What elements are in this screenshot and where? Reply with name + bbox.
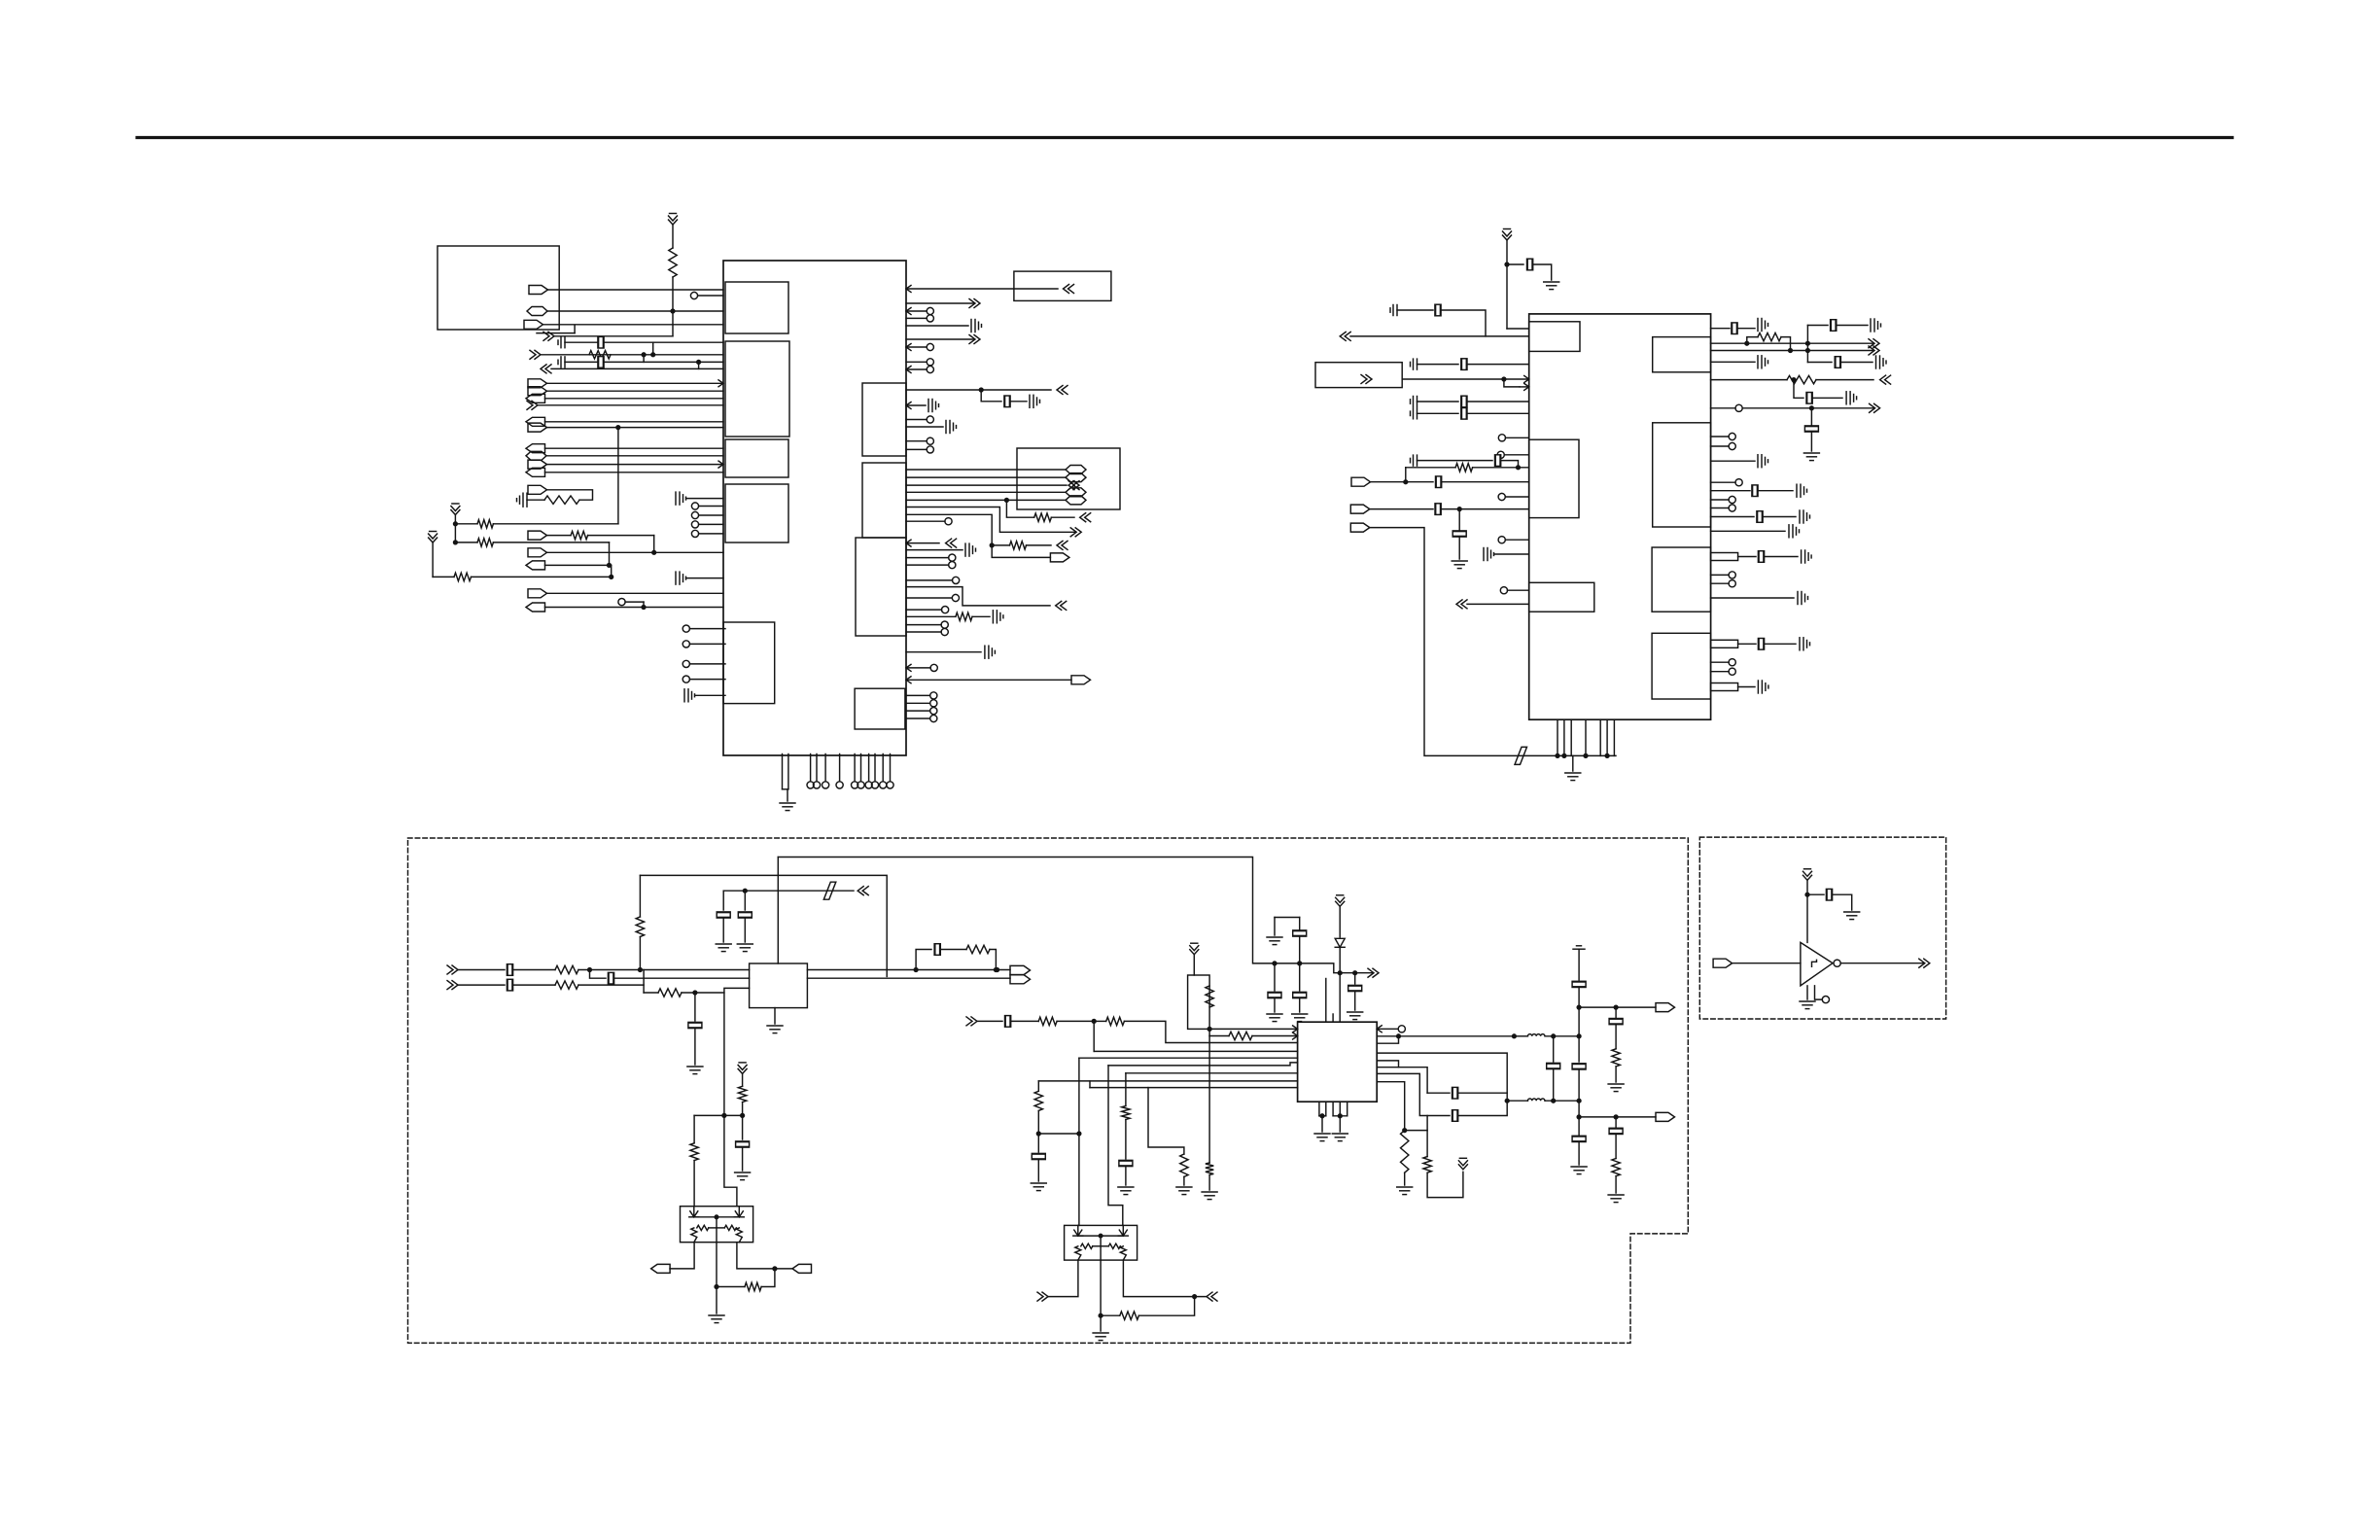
wire bbox=[737, 1242, 792, 1269]
wire bbox=[1781, 337, 1791, 351]
wire bbox=[1501, 461, 1519, 468]
resistor R12 bbox=[636, 917, 644, 937]
IC U1 sub-block bbox=[725, 282, 788, 333]
wire bbox=[906, 469, 1066, 471]
wire bbox=[547, 535, 572, 537]
wire bbox=[742, 1073, 744, 1086]
wire bbox=[1406, 467, 1455, 469]
wire bbox=[1711, 407, 1735, 409]
IC U1 sub-block bbox=[725, 484, 788, 542]
wire bbox=[1507, 328, 1529, 330]
wire bbox=[699, 533, 723, 535]
IC U2 sub-block bbox=[1652, 547, 1711, 612]
resistor R4 bbox=[477, 520, 493, 528]
wire bbox=[1615, 1176, 1617, 1193]
ground (top stub) bbox=[1573, 946, 1585, 949]
connector pin bbox=[1350, 505, 1370, 513]
wire bbox=[547, 390, 724, 392]
wire bbox=[1100, 1260, 1102, 1331]
junction bbox=[454, 541, 458, 544]
wire bbox=[537, 332, 575, 334]
wire bbox=[1405, 468, 1407, 482]
junction bbox=[588, 968, 592, 972]
connector pin bbox=[1050, 553, 1069, 562]
capacitor C12 to ground bbox=[928, 400, 939, 412]
wire bbox=[1758, 490, 1793, 492]
wire bbox=[906, 346, 927, 348]
IC U2 sub-block bbox=[1529, 582, 1594, 612]
pin bbox=[1498, 435, 1505, 441]
junction bbox=[693, 991, 697, 995]
wire bbox=[1810, 433, 1812, 451]
pin wire bbox=[1325, 1102, 1327, 1116]
pin bbox=[942, 607, 949, 613]
wire bbox=[1094, 1050, 1297, 1052]
capacitor C55 bbox=[738, 912, 752, 918]
wire bbox=[1711, 361, 1755, 363]
capacitor C46 to ground bbox=[1800, 510, 1810, 523]
wire bbox=[1467, 603, 1529, 605]
wire bbox=[672, 311, 674, 336]
wire bbox=[724, 1115, 737, 1206]
wire bbox=[1209, 1035, 1229, 1037]
wire bbox=[906, 389, 1051, 391]
wire bbox=[1473, 467, 1529, 469]
connector pin bbox=[528, 423, 547, 432]
pin bbox=[927, 307, 933, 314]
capacitor C29 bbox=[1435, 504, 1441, 515]
wire bbox=[698, 295, 723, 297]
pin bbox=[1497, 451, 1504, 458]
capacitor C66 bbox=[1032, 1153, 1045, 1159]
IC U3 body bbox=[1298, 1022, 1378, 1102]
wire bbox=[1711, 574, 1730, 576]
wire bbox=[1350, 335, 1529, 337]
bus slash bbox=[1515, 747, 1527, 764]
wire bbox=[653, 536, 655, 553]
wire bbox=[1089, 1081, 1091, 1088]
wire bbox=[682, 992, 724, 994]
wire bbox=[1125, 1168, 1127, 1186]
wire bbox=[527, 499, 544, 501]
wire bbox=[807, 969, 1010, 971]
in arrow bbox=[1056, 601, 1067, 610]
ground bbox=[1800, 1001, 1815, 1009]
wire bbox=[906, 476, 1066, 478]
wire bbox=[1505, 496, 1528, 498]
connector pin bbox=[528, 485, 547, 494]
wire bbox=[1208, 1036, 1210, 1164]
wire bbox=[1615, 1067, 1617, 1082]
capacitor C73 bbox=[1572, 1064, 1586, 1069]
capacitor C5 to ground bbox=[517, 493, 528, 507]
wire bbox=[1377, 1028, 1398, 1030]
wire bbox=[724, 988, 750, 1115]
pin bbox=[930, 715, 937, 721]
capacitor C70 bbox=[1547, 1063, 1560, 1068]
ground bbox=[687, 1067, 703, 1074]
inductor L2 bbox=[1527, 1099, 1545, 1101]
wire bbox=[698, 362, 700, 368]
wire bbox=[1738, 643, 1756, 645]
IC U1 sub-block bbox=[862, 463, 906, 538]
ground bbox=[1397, 1187, 1413, 1195]
in arrow bbox=[541, 365, 551, 373]
wire bbox=[977, 1020, 1002, 1022]
wire bbox=[610, 564, 612, 566]
resistor R26 bbox=[1180, 1154, 1188, 1176]
junction bbox=[616, 426, 620, 430]
wire bbox=[1101, 1314, 1120, 1316]
junction bbox=[1552, 1099, 1556, 1102]
wire bbox=[1732, 962, 1801, 964]
wire bbox=[744, 919, 746, 942]
wire bbox=[454, 515, 456, 542]
junction bbox=[996, 968, 999, 972]
pin wire bbox=[868, 754, 870, 782]
pin bbox=[1729, 442, 1735, 449]
pin bbox=[930, 700, 937, 707]
capacitor C47 to ground bbox=[1789, 525, 1800, 538]
junction bbox=[1099, 1313, 1102, 1317]
capacitor C72 bbox=[1609, 1019, 1623, 1025]
out arrow bbox=[1068, 481, 1079, 490]
junction bbox=[1517, 466, 1521, 470]
resistor R29 bbox=[1423, 1157, 1431, 1173]
wire bbox=[1806, 986, 1808, 999]
pin bbox=[941, 621, 948, 628]
wire bbox=[1126, 1072, 1298, 1074]
capacitor C67 bbox=[1119, 1160, 1133, 1166]
wire bbox=[722, 919, 724, 942]
supply arrow bbox=[738, 1063, 747, 1074]
wire bbox=[695, 694, 725, 696]
pin wire bbox=[874, 754, 876, 782]
wire bbox=[906, 310, 927, 312]
wire bbox=[906, 419, 927, 421]
wire bbox=[639, 937, 641, 971]
pin bbox=[927, 315, 933, 322]
pin wire bbox=[890, 754, 892, 782]
wire bbox=[1125, 1073, 1127, 1106]
pin wire bbox=[1339, 1102, 1341, 1116]
pin stub bbox=[1711, 640, 1738, 647]
wire bbox=[1711, 445, 1730, 447]
wire bbox=[670, 1242, 694, 1269]
wire bbox=[1011, 1020, 1038, 1022]
resistor R11 bbox=[1787, 375, 1816, 383]
connector pin bbox=[524, 320, 543, 329]
wire bbox=[1520, 386, 1529, 388]
out arrow bbox=[1870, 403, 1880, 412]
wire bbox=[541, 354, 723, 356]
wire bbox=[906, 484, 1067, 486]
IC U2 sub-block bbox=[1653, 423, 1711, 527]
wire bbox=[906, 491, 1066, 493]
junction bbox=[1505, 1099, 1509, 1102]
junction bbox=[1404, 480, 1408, 484]
wire bbox=[1404, 1172, 1406, 1185]
connector pin bbox=[792, 1264, 812, 1273]
pin bbox=[930, 664, 937, 671]
wire bbox=[1711, 342, 1873, 344]
wire bbox=[1812, 397, 1842, 399]
capacitor C44 to ground bbox=[1797, 484, 1807, 497]
out arrow bbox=[969, 335, 980, 344]
junction bbox=[454, 522, 458, 526]
pin bbox=[1398, 1026, 1405, 1032]
filter module X1 bbox=[750, 963, 808, 1008]
resistor R2 bbox=[589, 351, 611, 359]
ground bbox=[1608, 1084, 1624, 1092]
junction bbox=[1792, 378, 1796, 382]
resistor R15 bbox=[658, 989, 682, 997]
in arrow bbox=[1057, 386, 1067, 395]
wire bbox=[1615, 1007, 1617, 1017]
in arrow bbox=[1037, 1292, 1048, 1301]
capacitor C9 to ground bbox=[971, 320, 982, 332]
wire bbox=[1354, 973, 1356, 984]
capacitor C41 bbox=[1804, 426, 1818, 432]
junction bbox=[1338, 1114, 1342, 1118]
wire bbox=[1183, 1176, 1185, 1185]
capacitor C51 bbox=[1758, 639, 1764, 650]
pin bbox=[836, 782, 843, 788]
ground bbox=[1332, 1134, 1347, 1141]
IC U2 sub-block bbox=[1652, 633, 1711, 699]
wire bbox=[672, 277, 674, 311]
wire bbox=[547, 427, 724, 429]
junction bbox=[1806, 349, 1810, 353]
wire bbox=[1377, 1061, 1398, 1067]
pin bbox=[887, 782, 893, 788]
wire bbox=[1711, 328, 1730, 330]
supply arrow bbox=[429, 532, 437, 543]
wire bbox=[493, 523, 618, 525]
capacitor C58 bbox=[608, 972, 613, 984]
wire bbox=[1747, 337, 1758, 344]
IC U2 sub-block bbox=[1529, 322, 1580, 352]
pin bbox=[952, 594, 959, 601]
junction bbox=[1805, 892, 1809, 896]
junction bbox=[1320, 1114, 1324, 1118]
wire bbox=[565, 361, 723, 363]
out arrow bbox=[1869, 339, 1879, 348]
wire bbox=[1108, 1066, 1123, 1226]
wire bbox=[1615, 1026, 1617, 1049]
in arrow bbox=[447, 965, 458, 974]
wire bbox=[1405, 1130, 1427, 1132]
inverter U4 bbox=[1801, 942, 1833, 986]
pin bbox=[682, 660, 689, 667]
wire bbox=[643, 970, 645, 994]
pin bbox=[1729, 668, 1735, 675]
IC U1 sub-block bbox=[862, 383, 906, 456]
connector block J2 bbox=[1014, 271, 1111, 300]
wire bbox=[1545, 1035, 1579, 1037]
resistor R21 bbox=[1106, 1017, 1125, 1025]
connector pin bbox=[526, 468, 545, 476]
ground bbox=[1803, 453, 1819, 461]
wire bbox=[1057, 1020, 1094, 1022]
wire bbox=[723, 890, 745, 892]
wire bbox=[1815, 986, 1823, 999]
wire bbox=[906, 448, 927, 450]
ground bbox=[1267, 1014, 1282, 1022]
wire bbox=[1275, 917, 1300, 919]
pin bbox=[930, 692, 937, 699]
in arrow bbox=[1340, 332, 1350, 340]
ground bbox=[737, 944, 752, 952]
connector pin bbox=[529, 286, 548, 295]
wire bbox=[906, 615, 956, 617]
capacitor C31 to ground bbox=[1484, 548, 1494, 561]
connector pin bbox=[1066, 488, 1086, 497]
capacitor C49 to ground bbox=[1802, 550, 1812, 563]
pin bbox=[682, 676, 689, 682]
wire bbox=[906, 302, 974, 304]
resistor R1 bbox=[669, 248, 677, 277]
in arrow bbox=[1064, 285, 1074, 294]
header rule bbox=[137, 136, 2232, 139]
wire bbox=[1711, 350, 1873, 352]
wire bbox=[906, 557, 949, 559]
capacitor C2 bbox=[598, 336, 604, 348]
junction bbox=[1584, 754, 1588, 758]
junction bbox=[642, 606, 646, 610]
ground bbox=[1176, 1187, 1192, 1195]
wire bbox=[1442, 481, 1529, 483]
wire bbox=[906, 564, 949, 566]
ground bbox=[716, 944, 731, 952]
wire bbox=[578, 984, 644, 986]
resistor R13 bbox=[555, 965, 578, 973]
bus slash bbox=[823, 882, 836, 899]
junction bbox=[608, 564, 612, 568]
out arrow bbox=[1919, 959, 1930, 967]
wire bbox=[639, 875, 641, 917]
wire bbox=[1125, 1120, 1127, 1160]
ground bbox=[1031, 1183, 1046, 1191]
pin bbox=[691, 511, 698, 518]
connector pin bbox=[528, 387, 547, 396]
capacitor C20 bbox=[1411, 359, 1417, 369]
capacitor C21 bbox=[1461, 359, 1467, 370]
resistor R8 bbox=[1034, 513, 1052, 521]
wire bbox=[1807, 893, 1824, 895]
capacitor C40 to ground bbox=[1846, 392, 1857, 404]
wire bbox=[689, 628, 725, 630]
capacitor C36 bbox=[1835, 357, 1840, 368]
wire bbox=[722, 891, 724, 910]
supply arrow bbox=[1803, 869, 1812, 881]
pin wire bbox=[824, 754, 826, 782]
capacitor C22 bbox=[1411, 397, 1417, 407]
wire bbox=[689, 663, 725, 665]
wire bbox=[1494, 553, 1529, 555]
connector pin bbox=[527, 307, 547, 316]
capacitor C11 to ground bbox=[1030, 395, 1040, 407]
connector pin bbox=[1713, 959, 1732, 967]
junction bbox=[1577, 1034, 1581, 1038]
wire bbox=[1533, 264, 1552, 280]
wire bbox=[1333, 1115, 1347, 1117]
junction bbox=[1338, 971, 1342, 975]
wire bbox=[644, 992, 658, 994]
wire bbox=[1006, 500, 1033, 517]
junction bbox=[1457, 507, 1461, 511]
junction bbox=[1092, 1020, 1096, 1024]
pin bbox=[807, 782, 814, 788]
wire bbox=[1441, 508, 1528, 510]
pin bbox=[1500, 587, 1507, 594]
wire bbox=[547, 382, 724, 384]
junction bbox=[1556, 754, 1559, 758]
junction bbox=[1552, 1034, 1556, 1038]
resistor R20 bbox=[1038, 1017, 1057, 1025]
wire bbox=[1711, 460, 1755, 462]
wire bbox=[1711, 671, 1730, 673]
wire bbox=[1274, 999, 1276, 1013]
capacitor C17 bbox=[1527, 259, 1533, 270]
pin bbox=[813, 782, 820, 788]
wire bbox=[545, 447, 724, 449]
wire bbox=[1504, 379, 1520, 387]
capacitor C59 bbox=[688, 1022, 702, 1028]
wire bbox=[554, 335, 673, 337]
wire bbox=[1794, 380, 1803, 399]
ground bbox=[1118, 1187, 1134, 1195]
out arrow bbox=[530, 350, 541, 359]
capacitor C4 bbox=[598, 357, 604, 368]
wire bbox=[640, 875, 887, 976]
capacitor C35 to ground bbox=[1871, 319, 1881, 332]
wire bbox=[1441, 310, 1486, 336]
wire bbox=[906, 426, 943, 428]
pin stub bbox=[1711, 683, 1738, 691]
wire bbox=[1124, 1021, 1297, 1042]
pin bbox=[1498, 493, 1505, 500]
wire bbox=[458, 984, 505, 986]
junction bbox=[773, 1267, 777, 1271]
capacitor C27 bbox=[1495, 455, 1501, 467]
wire bbox=[717, 1286, 745, 1288]
wire bbox=[643, 355, 645, 363]
IC U1 sub-block bbox=[725, 439, 788, 477]
wire bbox=[787, 789, 788, 801]
wire bbox=[906, 325, 968, 327]
junction bbox=[715, 1285, 718, 1289]
wire bbox=[1467, 401, 1529, 402]
wire bbox=[1504, 454, 1528, 456]
pin wire bbox=[1570, 719, 1572, 755]
wire bbox=[1123, 1260, 1207, 1297]
wire bbox=[1840, 962, 1923, 964]
wire bbox=[1553, 1036, 1555, 1062]
wire bbox=[1711, 436, 1730, 437]
wire bbox=[906, 679, 1071, 681]
wire bbox=[455, 523, 477, 525]
wire bbox=[1837, 325, 1868, 327]
resistor R24 bbox=[1034, 1091, 1042, 1110]
pin bbox=[682, 641, 689, 647]
wire bbox=[1037, 1081, 1039, 1091]
wire bbox=[493, 542, 609, 543]
wire bbox=[689, 679, 725, 681]
pin bbox=[691, 503, 698, 509]
out arrow bbox=[527, 401, 538, 409]
wire bbox=[783, 788, 788, 790]
